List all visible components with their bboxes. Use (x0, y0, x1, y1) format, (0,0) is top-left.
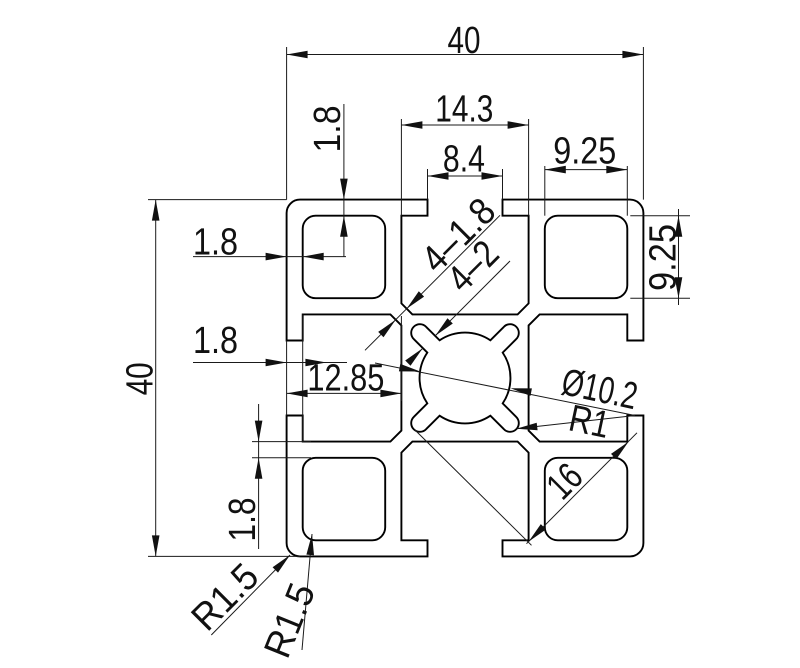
svg-text:1.8: 1.8 (222, 498, 264, 542)
arrowhead diameter leader left (399, 364, 420, 372)
arrowhead R1 leader (516, 423, 537, 431)
arrowheads 40 top (287, 51, 308, 59)
svg-text:1.8: 1.8 (193, 222, 238, 264)
corner hole bottom-left 9.25x9.25 (303, 458, 386, 541)
corner hole top-right 9.25x9.25 (545, 216, 628, 299)
svg-text:R1: R1 (565, 398, 613, 447)
arrowheads 8.4 (428, 172, 449, 180)
svg-text:9.25: 9.25 (553, 131, 616, 173)
leader for R1.5 outer corner (211, 555, 290, 635)
leader for R1.5 hole corner (302, 534, 312, 650)
leader for R1 (516, 416, 635, 429)
svg-text:40: 40 (120, 362, 162, 395)
arrowheads 12.85 (287, 390, 308, 398)
tangent leader from bottom-left lobe to 16 tip (415, 430, 532, 546)
arrowhead diameter leader right (511, 388, 532, 396)
arrowheads 1.8 left lip (266, 359, 287, 367)
dimension 1.8 bottom web: extension stubs and dim line (252, 441, 311, 443)
svg-text:12.85: 12.85 (307, 357, 384, 399)
arrowheads 9.25 right (675, 216, 683, 237)
svg-text:8.4: 8.4 (443, 138, 485, 180)
arrowheads 14.3 (401, 121, 422, 129)
dimension 9.25 right: extension and dim lines (630, 215, 690, 217)
svg-text:14.3: 14.3 (435, 89, 493, 131)
dimension 4-1.8: diagonal dim line (365, 309, 407, 351)
arrowhead R1.5 hole (306, 534, 314, 555)
dimension 4-2: diagonal dim line (414, 348, 423, 357)
svg-text:40: 40 (448, 20, 481, 62)
dimension 12.85: extension and dim line (400, 316, 402, 401)
arrowheads 1.8 bottom web (255, 421, 263, 442)
arrowheads 4-1.8 (407, 291, 425, 309)
dimension 9.25 top: extension and dim lines (544, 166, 546, 216)
arrowhead R1.5 outer (273, 555, 290, 573)
arrowheads 1.8 top (340, 179, 348, 200)
dimension 14.3: extension and dim lines (400, 119, 402, 216)
profile outer outline with four T-slots (287, 200, 644, 557)
svg-text:9.25: 9.25 (643, 224, 685, 291)
dimension 8.4: extension and dim lines (427, 169, 429, 200)
dimension 1.8 top wall: leader line (343, 104, 345, 257)
svg-text:1.8: 1.8 (193, 320, 238, 362)
dimension 40 top: extension lines and dim line (286, 47, 288, 200)
arrowheads 1.8 left wall (266, 253, 287, 261)
dimension 1.8 left slot lip: leader line (193, 362, 347, 364)
leader for diameter 10.2 (375, 363, 635, 416)
svg-text:1.8: 1.8 (307, 106, 349, 153)
arrowheads 40 left (152, 200, 160, 221)
arrowheads 16 (529, 524, 547, 542)
corner hole top-left 9.25x9.25 (303, 216, 386, 299)
arrowheads 9.25 top (545, 166, 566, 174)
arrowheads 4-2 (435, 318, 453, 336)
dimension 40 left: extension lines and dim line (148, 199, 287, 201)
corner hole bottom-right 9.25x9.25 (545, 458, 628, 541)
dimension 16: diagonal dim line (527, 433, 638, 544)
central bore clover (411, 324, 519, 432)
dimension 1.8 left wall: leader line (193, 256, 346, 258)
